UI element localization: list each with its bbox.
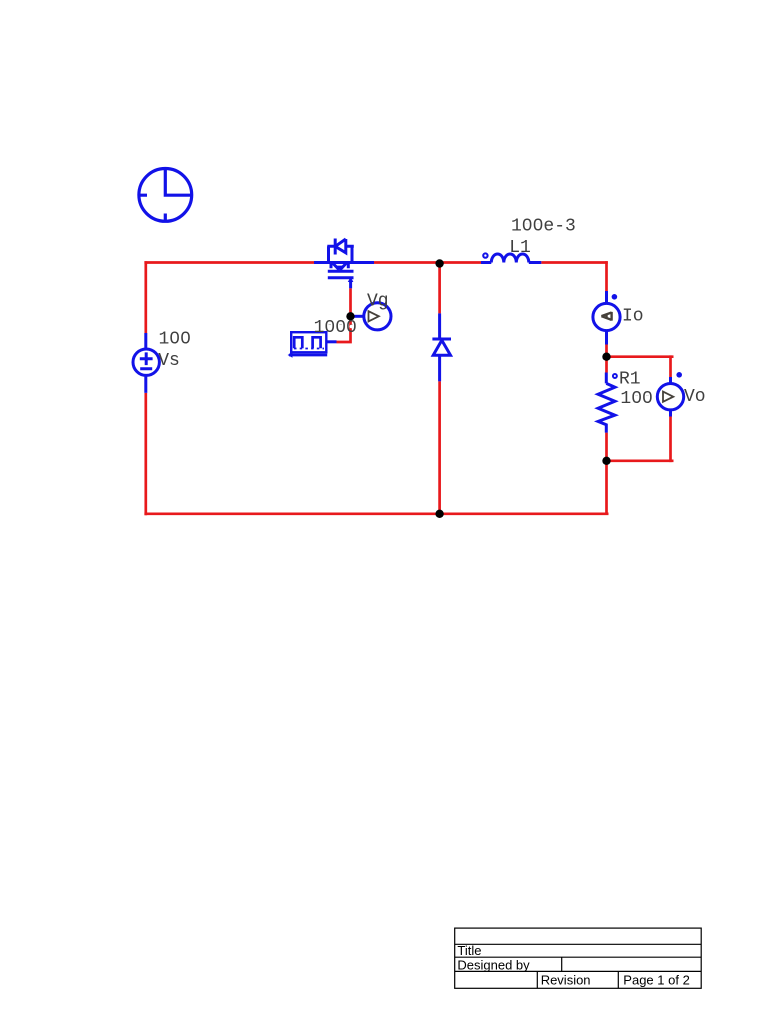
node Vg tap [346, 312, 354, 320]
ammeter Io [593, 291, 620, 345]
wire top bus left red [144, 261, 314, 264]
wire right rail ammeter-to-node [605, 345, 608, 357]
node diode top [435, 259, 443, 267]
wire left rail upper [144, 261, 147, 333]
svg-text:Designed by: Designed by [457, 957, 530, 972]
zero-dot masks [173, 223, 649, 399]
node R1 top [602, 353, 610, 361]
svg-text:100e-3: 100e-3 [511, 217, 576, 237]
probe Vo V glyph [663, 392, 673, 402]
wire gate branch red [337, 288, 351, 342]
clock symbol [139, 169, 192, 222]
svg-text:R1: R1 [619, 370, 641, 390]
ammeter A glyph [601, 312, 611, 321]
wire top bus mid red [374, 261, 481, 264]
svg-text:Io: Io [622, 306, 644, 326]
probe Vg V glyph [369, 311, 379, 321]
wire Vo branch lower [669, 417, 672, 463]
ammeter dot marker [612, 294, 618, 300]
svg-text:Vs: Vs [158, 351, 180, 371]
wire right rail upper [605, 261, 608, 291]
wire R1 bottom red [605, 433, 608, 461]
wire Vo bottom to lower node [607, 459, 674, 462]
wire Vo branch upper [669, 355, 672, 377]
svg-text:Vg: Vg [367, 292, 389, 312]
probe Vg [355, 303, 392, 330]
svg-text:Revision: Revision [541, 972, 591, 987]
wire top bus right red [541, 261, 608, 264]
wire bottom bus [144, 512, 608, 515]
wire diode branch upper red [438, 263, 441, 314]
voltage source Vs [133, 333, 159, 393]
resistor R1 [598, 373, 617, 433]
svg-text:L1: L1 [509, 238, 531, 258]
title block [455, 928, 702, 988]
svg-text:1000: 1000 [314, 318, 357, 338]
node R1 bottom [602, 457, 610, 465]
wire left rail lower [144, 393, 147, 515]
gating block [289, 332, 337, 355]
transistor Q1 MOSFET [314, 239, 374, 289]
wire top node to Vo branch [607, 355, 674, 358]
diode D1 [432, 313, 451, 381]
inductor L1 [481, 253, 541, 262]
wire lower node to bottom bus [605, 461, 608, 514]
probe Vo dot marker [676, 372, 682, 378]
node diode bottom [435, 510, 443, 518]
svg-text:Page 1 of 2: Page 1 of 2 [623, 972, 690, 987]
wire diode branch lower red [438, 381, 441, 514]
svg-text:Title: Title [457, 943, 481, 958]
wire node to R1 [605, 357, 608, 373]
probe Vo [657, 377, 683, 417]
svg-text:Vo: Vo [684, 387, 706, 407]
